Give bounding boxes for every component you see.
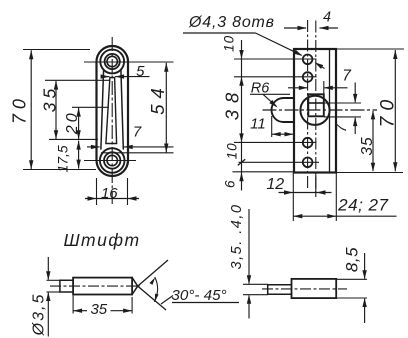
svg-text:12: 12 [266, 176, 284, 193]
pin body [73, 278, 132, 295]
dimension 24; 27 [293, 196, 396, 219]
svg-text:35: 35 [90, 301, 107, 318]
svg-text:3,5. .4,0: 3,5. .4,0 [229, 204, 245, 270]
svg-text:6: 6 [222, 180, 237, 188]
label R6 [250, 81, 290, 108]
plate side view outline [294, 49, 336, 173]
dimension 8,5 extension lines [336, 279, 367, 298]
extension line hole3 [234, 141, 317, 143]
dimension 35 [39, 81, 59, 140]
svg-text:54: 54 [147, 82, 168, 115]
square top edge extension right [324, 102, 361, 104]
cone angle arc [149, 277, 158, 302]
dimension 12 [266, 176, 331, 195]
svg-text:35: 35 [39, 85, 59, 112]
extension line hole1 [234, 58, 317, 60]
dimension 70 (left) [9, 50, 33, 169]
dimension 35 (pin) [73, 301, 132, 318]
pin2 centerline [262, 288, 347, 290]
cone angle V upper line [138, 260, 168, 286]
svg-text:4: 4 [323, 10, 331, 26]
dimension 8,5 [343, 247, 367, 323]
dimension 4 (top) [284, 10, 338, 31]
pin2 small end [268, 285, 292, 295]
label diameter 4,3 8 holes [183, 14, 303, 56]
pin small end [60, 280, 73, 292]
top hole horizontal centerline / ext for 54 [84, 61, 174, 63]
dimension diameter 3,5 extension lines [47, 280, 61, 292]
dimension 17,5 [55, 141, 81, 173]
hole 3 (side view) [303, 138, 313, 148]
dimension 35 (pin) extension lines [73, 296, 132, 314]
dimension 10 top (right view) [222, 35, 237, 52]
dimension 20 extension line [72, 106, 109, 108]
top screw hole (front view) [100, 50, 124, 74]
dimension 16 extension lines [97, 178, 128, 205]
svg-text:38: 38 [221, 86, 242, 121]
svg-text:8,5: 8,5 [343, 247, 362, 272]
plate fold line [329, 49, 331, 173]
svg-text:7: 7 [133, 124, 142, 141]
dimension 38 (right view) [221, 86, 242, 121]
svg-text:Штифт: Штифт [63, 230, 140, 250]
dimension 7 square height [333, 83, 358, 135]
bottom screw hole (front view) [100, 148, 125, 173]
dimension 70 (right view) [377, 50, 399, 171]
tapered slot [106, 78, 117, 144]
dimension 54 [147, 63, 169, 153]
plate front view outline [97, 46, 129, 176]
hole 1 (side view) [303, 55, 313, 65]
plate vertical centerline [111, 37, 113, 204]
channel bottom edge / ext for 54 [101, 152, 174, 154]
left dimension stack line [238, 40, 245, 191]
latch bolt centerline [263, 109, 378, 111]
svg-text:7: 7 [333, 124, 350, 133]
svg-text:24; 27: 24; 27 [337, 196, 388, 215]
dimension 10 bottom (right view) [224, 142, 239, 159]
top edge extension (70 right) [336, 48, 404, 50]
svg-text:70: 70 [9, 94, 29, 124]
dimension 6 (right view) [222, 180, 237, 188]
cone angle V lower line [138, 286, 166, 310]
dimension 3,5-4,0 [229, 204, 251, 319]
extension line plate bottom left [233, 171, 295, 173]
svg-text:7: 7 [342, 68, 352, 85]
pin2 body [292, 279, 337, 298]
label 30-45 degrees [161, 287, 239, 304]
svg-text:16: 16 [101, 185, 118, 202]
svg-text:Ø3,5: Ø3,5 [31, 293, 48, 337]
dimension 24; 27 extension line [335, 173, 337, 221]
dimension 5 (slot top width) [101, 63, 150, 80]
svg-text:10: 10 [224, 142, 239, 159]
extension line hole2 [234, 76, 317, 78]
tapered channel right wall [121, 70, 123, 150]
pin cone point [132, 278, 138, 295]
svg-text:Ø4,3 8отв: Ø4,3 8отв [188, 14, 275, 31]
dimension 35 (right view) [359, 110, 376, 171]
svg-text:30°- 45°: 30°- 45° [171, 287, 226, 304]
hole column centerline [307, 20, 309, 188]
dimension 7 (slot bottom width) [87, 124, 174, 150]
tapered channel left wall [101, 70, 104, 150]
square right edge extension up [323, 81, 325, 94]
dimension 16 [85, 185, 139, 202]
baseline extension line [49, 138, 98, 140]
dimension 7 square width [288, 68, 352, 91]
svg-text:11: 11 [250, 115, 266, 132]
leader arrow at hole 1 [315, 62, 325, 69]
square spindle hole with notch [308, 94, 324, 116]
dimension 12 extension lines [293, 173, 316, 221]
bottom edge extension (70 right) [336, 172, 403, 174]
extension line hole4 [239, 161, 320, 163]
svg-text:10: 10 [222, 35, 237, 52]
dimension 70 (left) extension lines [23, 50, 96, 170]
dimension 20 [64, 108, 81, 140]
label Shtift [63, 230, 140, 250]
dimension diameter 3,5 [31, 257, 51, 337]
dimension 11 [250, 115, 293, 136]
bottom hole horizontal centerline [84, 160, 136, 162]
hole 2 (side view) [303, 72, 313, 82]
svg-text:5: 5 [136, 63, 145, 80]
svg-text:70: 70 [377, 94, 399, 128]
svg-text:20: 20 [64, 110, 81, 135]
pin centerline [50, 285, 140, 287]
svg-text:17,5: 17,5 [55, 145, 71, 172]
dimension 35 extension line [45, 79, 110, 81]
square bottom edge extension right [324, 116, 361, 118]
circular boss around square [300, 96, 329, 125]
bump apex extension line [271, 116, 273, 137]
hole 4 (side view) [303, 158, 313, 168]
square hole centerline [315, 21, 317, 197]
latch bolt R6 bump [272, 98, 295, 122]
dimension 3,5-4,0 extension lines [243, 284, 268, 294]
svg-text:35: 35 [359, 136, 376, 155]
